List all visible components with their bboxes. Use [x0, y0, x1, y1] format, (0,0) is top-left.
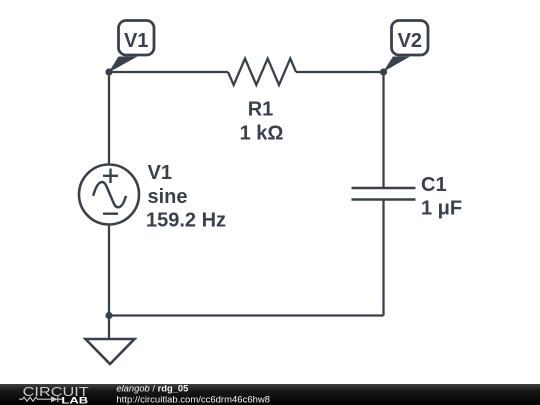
- svg-text:1 μF: 1 μF: [421, 197, 462, 219]
- capacitor C1 bottom plate: [352, 198, 416, 201]
- CircuitLab logo diode triangle: [51, 396, 58, 402]
- ground wire stub: [108, 316, 110, 340]
- node V2 junction dot: [380, 68, 387, 75]
- CircuitLab logo resistor-diode glyph: [19, 396, 62, 402]
- node label V1 callout box: [119, 21, 155, 56]
- capacitor C1 top plate: [352, 187, 416, 190]
- voltage source sine glyph: [93, 182, 126, 207]
- svg-text:V1: V1: [124, 30, 148, 52]
- node V1 junction dot: [105, 68, 112, 75]
- node label V1 callout tail: [109, 57, 138, 73]
- wire left upper (node V1 down to source): [108, 72, 110, 165]
- node label V2 callout box: [392, 21, 429, 56]
- svg-text:sine: sine: [148, 186, 188, 208]
- svg-text:V1: V1: [148, 162, 172, 184]
- svg-text:R1: R1: [248, 98, 274, 120]
- voltage source minus sign: [103, 212, 118, 214]
- ground symbol triangle: [86, 339, 135, 364]
- svg-text:V2: V2: [398, 30, 422, 52]
- wire bottom (junction to capacitor branch): [109, 314, 384, 316]
- bottom junction dot: [105, 312, 112, 319]
- voltage source V1 circle: [79, 165, 139, 225]
- node label V2 callout tail: [383, 57, 410, 73]
- wire top-left (node V1 to resistor): [109, 71, 228, 73]
- footer bar: [0, 384, 540, 405]
- svg-text:LAB: LAB: [61, 396, 88, 405]
- wire right lower (capacitor to bottom wire): [382, 200, 384, 316]
- svg-text:http://circuitlab.com/cc6drm46: http://circuitlab.com/cc6drm46c6hw8: [116, 394, 270, 405]
- wire left lower (source to bottom junction): [108, 225, 110, 316]
- svg-text:1 kΩ: 1 kΩ: [240, 122, 284, 144]
- wire right upper (node V2 down to capacitor): [382, 72, 384, 188]
- svg-text:159.2 Hz: 159.2 Hz: [146, 209, 226, 231]
- voltage source plus sign: [103, 175, 118, 177]
- wire top-right (resistor to node V2): [296, 71, 384, 73]
- svg-text:C1: C1: [421, 174, 447, 196]
- svg-text:elangob / rdg_05: elangob / rdg_05: [116, 382, 188, 393]
- resistor R1 zigzag: [228, 59, 296, 86]
